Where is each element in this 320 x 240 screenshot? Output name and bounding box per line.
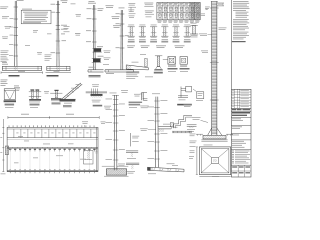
pier schedule table <box>157 2 208 22</box>
pier elevation detail mid <box>154 56 168 74</box>
tapered slab detail <box>126 54 148 70</box>
elevation interior labels <box>24 141 86 160</box>
pier plan detail D2 <box>29 89 41 107</box>
general notes text column <box>232 1 250 42</box>
footing bar detail left 2 <box>126 163 139 173</box>
diagonal brace detail <box>59 83 82 107</box>
pier top dimension lines <box>205 3 224 9</box>
general note box <box>21 9 51 24</box>
wall section detail S3 stem <box>86 1 121 70</box>
note lines below mid cluster <box>126 72 153 79</box>
labels left of schedule table <box>128 3 154 18</box>
note text below titles left <box>1 80 21 89</box>
corner plan detail D4 <box>129 93 148 108</box>
box frame detail D1 <box>4 89 20 108</box>
tall wall section W5 stem <box>102 93 129 171</box>
pier details row 2 <box>128 25 191 43</box>
section title under S2 <box>47 75 59 77</box>
footing elevation left annotations <box>189 134 197 159</box>
tall wall W5 footing <box>104 164 129 177</box>
labels between S3 and S4 <box>103 51 111 65</box>
elevation bottom chord with ticks <box>7 149 98 174</box>
wall S3 bearing plate upper <box>93 46 104 52</box>
annotation stack left of S1 stem <box>1 51 9 63</box>
wall S3 footing <box>88 67 104 72</box>
pier plan detail D3 <box>50 90 62 104</box>
stepped section detail D5 <box>177 86 192 105</box>
elevation middle line with piers <box>7 147 98 151</box>
detail titles mid row <box>127 45 185 48</box>
wall section detail S1 stem <box>9 0 24 66</box>
footing plan with diagonals <box>196 145 231 177</box>
footing bar detail left 1 <box>126 151 138 159</box>
elevation left end pier <box>0 119 8 172</box>
wall W6 shelf bracket <box>158 124 177 132</box>
anchor bolt plan detail 2 <box>180 57 190 72</box>
pier leader annotations left <box>197 14 227 53</box>
annotation text top-left margin <box>0 7 11 40</box>
elevation window band lower line <box>7 139 98 141</box>
annotation stack left of S2 stem <box>45 55 52 61</box>
elevation right end pier <box>82 121 98 171</box>
misc small marks lower left of elevation area <box>44 91 49 94</box>
sheet border line right <box>231 0 233 89</box>
tall wall section W6 stem <box>148 93 168 167</box>
scattered texts elevation interior extra <box>1 122 106 175</box>
wall section detail S4 stem <box>116 8 129 70</box>
anchor bolt plan detail 1 <box>168 57 178 72</box>
elevation top chord band <box>7 125 98 171</box>
wall S4 footing with sloped toe <box>105 70 134 74</box>
misc text top area mid <box>64 26 81 34</box>
footing elevation hatched cap <box>196 134 233 141</box>
small pier detail below hatched block <box>190 23 198 38</box>
title block <box>231 108 251 177</box>
section title under S3 <box>89 75 101 77</box>
pier base flare <box>208 128 222 135</box>
small leader box detail D6 <box>193 89 204 101</box>
leader texts between W5 and W6 <box>104 90 156 131</box>
wall W6 sloped footing <box>147 163 184 174</box>
leader detail left of pier base <box>187 117 208 132</box>
wall S3 bearing plate lower <box>92 56 104 63</box>
elevation overall dimension line <box>8 114 99 119</box>
wall section detail S1 footing <box>1 62 43 74</box>
step profile detail right of W6 <box>170 104 192 132</box>
wall W6 upper-left annotation <box>131 133 140 146</box>
wall section detail S2 footing <box>46 66 72 72</box>
section title under S1 <box>9 75 20 77</box>
tall pier elevation with rebar rungs <box>210 1 219 135</box>
scattered leader texts between sections <box>25 4 81 55</box>
bolted base connection detail <box>86 84 107 106</box>
wall section detail S2 stem <box>51 0 68 66</box>
revision table <box>231 89 251 177</box>
